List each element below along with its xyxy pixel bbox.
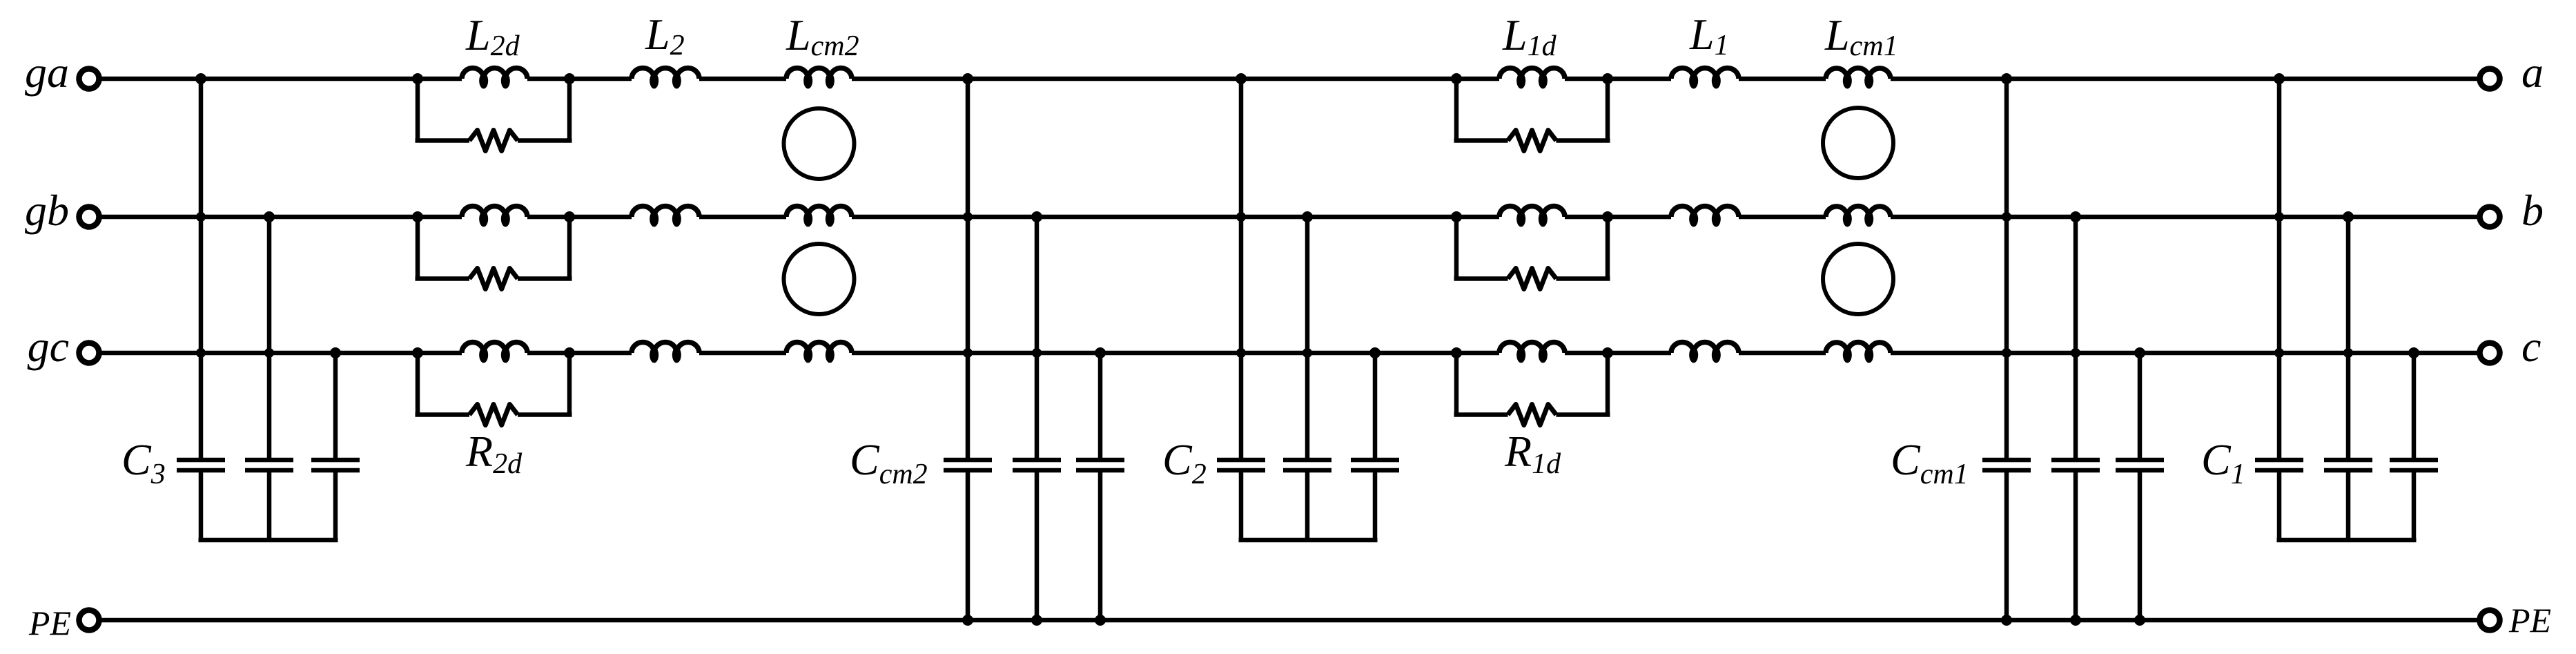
svg-text:Ccm1: Ccm1: [1891, 435, 1969, 490]
svg-text:R1d: R1d: [1504, 427, 1561, 480]
wire PE horizontal line: [101, 618, 2477, 623]
inductor L2 (gc row): [632, 342, 699, 353]
terminal b: [2480, 207, 2500, 227]
node C3-b/gc crossing: [264, 348, 274, 358]
node C3-a/gb crossing: [196, 212, 206, 222]
terminal a: [2480, 69, 2500, 89]
node L2d right junction (ga): [564, 73, 575, 84]
inductor L1 (gb row): [1671, 206, 1739, 217]
node L1d left junction (ga): [1451, 73, 1462, 84]
svg-text:L1d: L1d: [1502, 10, 1557, 62]
node Ccm2-c junction: [1095, 347, 1106, 358]
node C2-a junction: [1236, 73, 1247, 84]
node L2d left junction (ga): [412, 73, 423, 84]
svg-text:C1: C1: [2201, 435, 2245, 490]
wire phase gc horizontal line: [101, 351, 462, 356]
Lcm2 core circle lower: [784, 244, 855, 314]
capacitor Ccm2 phase-a column: [966, 79, 970, 458]
node L1d right junction (ga): [1602, 73, 1613, 84]
capacitor C1 phase-b column: [2346, 217, 2351, 458]
terminal c: [2480, 343, 2500, 363]
svg-text:gc: gc: [28, 322, 69, 371]
node C1-b junction: [2343, 211, 2354, 222]
svg-text:R2d: R2d: [465, 427, 523, 480]
node Ccm1-a/gb crossing: [2002, 212, 2011, 222]
node L2d right junction (gc): [564, 347, 575, 358]
inductor L1d with parallel resistor R1d (gb row): [1454, 217, 1459, 279]
node Ccm1-a junction: [2001, 73, 2012, 84]
node Ccm1-b junction: [2070, 211, 2081, 222]
node L1d left junction (gc): [1451, 347, 1462, 358]
Lcm1 core circle upper: [1823, 108, 1893, 178]
inductor L1d with parallel resistor R1d (gc row): [1454, 353, 1459, 415]
inductor Lcm1 winding (ga row): [1826, 68, 1891, 79]
inductor L2d with parallel resistor R2d (gc row): [416, 353, 420, 415]
capacitor Ccm1 phase-a column: [2004, 79, 2009, 458]
node Ccm1-a PE junction: [2001, 615, 2012, 626]
node Ccm2-b/gc crossing: [1032, 348, 1042, 358]
node Ccm2-b junction: [1031, 211, 1042, 222]
svg-text:b: b: [2521, 186, 2544, 235]
wire phase ga horizontal line: [101, 77, 462, 81]
node Ccm1-a/gc crossing: [2002, 348, 2011, 358]
svg-text:Lcm1: Lcm1: [1824, 10, 1898, 62]
capacitor C2 phase-b column: [1305, 217, 1310, 458]
terminal PE left: [79, 610, 99, 631]
inductor Lcm2 winding (ga row): [786, 68, 852, 79]
node Ccm2-b PE junction: [1031, 615, 1042, 626]
node Ccm1-b/gc crossing: [2071, 348, 2080, 358]
node L1d right junction (gb): [1602, 211, 1613, 222]
node C2-a/gb crossing: [1236, 212, 1246, 222]
capacitor Ccm1 phase-c column: [2138, 353, 2143, 458]
inductor L2d with parallel resistor R2d (gb row): [416, 217, 420, 279]
inductor L2 (ga row): [632, 68, 699, 79]
terminal PE right: [2480, 610, 2500, 631]
node C2-b/gc crossing: [1302, 348, 1312, 358]
node L2d right junction (gb): [564, 211, 575, 222]
wire C3 star bar: [199, 538, 338, 543]
svg-text:L2: L2: [645, 10, 685, 61]
inductor L1 (gc row): [1671, 342, 1739, 353]
capacitor Ccm2 phase-b column: [1035, 217, 1040, 458]
svg-text:L1: L1: [1689, 10, 1729, 61]
node C1-c junction: [2408, 347, 2419, 358]
node C1-a/gb crossing: [2274, 212, 2284, 222]
svg-text:gb: gb: [25, 186, 69, 235]
node Ccm2-a PE junction: [962, 615, 973, 626]
node C3-a junction: [195, 73, 206, 84]
capacitor C3 phase-c column: [333, 353, 338, 458]
inductor L1d with parallel resistor R1d (ga row): [1454, 79, 1459, 141]
svg-text:C2: C2: [1162, 435, 1207, 490]
node Ccm1-c junction: [2134, 347, 2145, 358]
node C2-a/gc crossing: [1236, 348, 1246, 358]
node C1-a/gc crossing: [2274, 348, 2284, 358]
svg-text:L2d: L2d: [465, 10, 520, 62]
svg-text:ga: ga: [25, 48, 69, 97]
node C1-a junction: [2274, 73, 2285, 84]
node Ccm1-c PE junction: [2134, 615, 2145, 626]
node Ccm2-a/gc crossing: [963, 348, 973, 358]
svg-text:c: c: [2521, 322, 2541, 371]
wire phase gb horizontal line: [101, 215, 462, 220]
node Ccm2-a junction: [962, 73, 973, 84]
node C2-c junction: [1369, 347, 1380, 358]
node C3-b junction: [264, 211, 275, 222]
node Ccm2-a/gb crossing: [963, 212, 973, 222]
terminal gb: [79, 207, 99, 227]
node Ccm1-b PE junction: [2070, 615, 2081, 626]
node L1d left junction (gb): [1451, 211, 1462, 222]
wire C2 star bar: [1239, 538, 1378, 543]
svg-text:PE: PE: [2508, 601, 2551, 639]
svg-text:PE: PE: [28, 604, 71, 642]
terminal gc: [79, 343, 99, 363]
node C3-a/gc crossing: [196, 348, 206, 358]
svg-text:Lcm2: Lcm2: [786, 10, 859, 62]
node L2d left junction (gc): [412, 347, 423, 358]
capacitor C3 phase-a column: [199, 79, 204, 458]
node C3-c junction: [330, 347, 341, 358]
node Ccm2-c PE junction: [1095, 615, 1106, 626]
terminal ga: [79, 69, 99, 89]
inductor L2d with parallel resistor R2d (ga row): [416, 79, 420, 141]
wire C1 star bar: [2277, 538, 2417, 543]
inductor Lcm1 winding (gc row): [1826, 342, 1891, 353]
node C2-b junction: [1302, 211, 1313, 222]
node L1d right junction (gc): [1602, 347, 1613, 358]
capacitor Ccm2 phase-c column: [1098, 353, 1103, 458]
capacitor C2 phase-a column: [1239, 79, 1244, 458]
capacitor C1 phase-a column: [2277, 79, 2282, 458]
svg-text:C3: C3: [121, 435, 166, 490]
capacitor C3 phase-b column: [267, 217, 272, 458]
inductor Lcm1 winding (gb row): [1826, 206, 1891, 218]
capacitor Ccm1 phase-b column: [2074, 217, 2078, 458]
capacitor C1 phase-c column: [2412, 353, 2417, 458]
node L2d left junction (gb): [412, 211, 423, 222]
Lcm1 core circle lower: [1823, 244, 1893, 314]
Lcm2 core circle upper: [784, 108, 855, 179]
node C1-b/gc crossing: [2343, 348, 2353, 358]
capacitor C2 phase-c column: [1373, 353, 1378, 458]
inductor Lcm2 winding (gc row): [786, 342, 852, 353]
svg-text:a: a: [2521, 48, 2544, 97]
inductor L1 (ga row): [1671, 68, 1739, 79]
svg-text:Ccm2: Ccm2: [850, 435, 928, 490]
inductor L2 (gb row): [632, 206, 699, 217]
inductor Lcm2 winding (gb row): [786, 206, 852, 217]
